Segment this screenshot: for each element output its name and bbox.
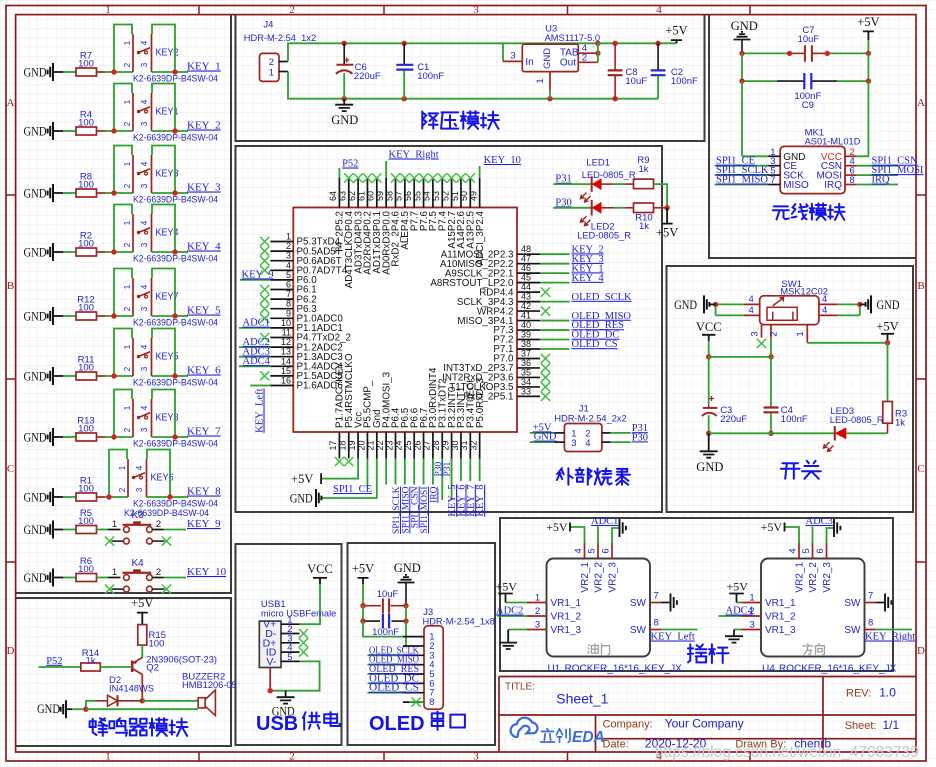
wire	[239, 346, 270, 348]
svg-text:ROCKER_16*16_KEY_JX: ROCKER_16*16_KEY_JX	[565, 664, 683, 675]
wire	[846, 432, 887, 434]
junction	[360, 618, 365, 623]
wire	[114, 375, 133, 377]
svg-text:1: 1	[112, 567, 117, 578]
MK1 pin 8 (IRQ)	[845, 184, 857, 186]
wire	[109, 496, 128, 498]
no-connect	[260, 266, 269, 275]
svg-text:100nF: 100nF	[781, 414, 808, 425]
svg-text:4: 4	[140, 99, 149, 104]
key switch KEY6	[127, 459, 129, 497]
svg-text:HDR-M-2.54_1x2: HDR-M-2.54_1x2	[244, 33, 316, 43]
svg-text:ADC4: ADC4	[243, 356, 271, 367]
wire	[503, 60, 522, 62]
svg-text:EDA: EDA	[572, 729, 605, 746]
joystick U4 pin 5 (VR2_2)	[812, 543, 814, 559]
wire	[114, 390, 132, 438]
MCU pin 44 (RDP4.4)	[517, 291, 540, 293]
wire	[770, 357, 772, 404]
wire	[368, 692, 404, 694]
power +5V (OLED)	[358, 578, 369, 584]
svg-text:GND: GND	[24, 571, 47, 585]
svg-text:P30: P30	[555, 197, 571, 208]
ground (buck)	[335, 99, 353, 111]
power +5V (wireless)	[863, 31, 874, 40]
svg-text:11: 11	[282, 328, 291, 338]
pin 4 (TAB)	[578, 52, 598, 54]
svg-text:1.0: 1.0	[879, 686, 896, 700]
wire	[239, 327, 270, 329]
svg-text:IRQ: IRQ	[872, 175, 891, 186]
wire	[654, 207, 668, 209]
wire	[63, 436, 76, 438]
junction	[172, 190, 177, 195]
svg-text:K2-6639DP-B4SW-04: K2-6639DP-B4SW-04	[133, 74, 218, 84]
wire	[469, 459, 471, 482]
svg-text:GND: GND	[290, 492, 313, 506]
no-connect	[541, 288, 550, 297]
J3 pin 7	[403, 692, 424, 694]
svg-text:4: 4	[286, 260, 291, 270]
svg-text:AMS1117-5.0: AMS1117-5.0	[545, 33, 600, 43]
svg-text:VR2_2: VR2_2	[594, 562, 605, 593]
wire	[363, 621, 403, 637]
svg-text:Date:: Date:	[603, 739, 629, 751]
svg-text:100: 100	[78, 180, 94, 191]
wire	[288, 43, 344, 61]
svg-text:D: D	[917, 645, 925, 657]
wire	[114, 251, 133, 253]
MCU pin 21 (Gnd)	[376, 432, 378, 459]
svg-text:SPI1_CE: SPI1_CE	[333, 484, 372, 495]
svg-text:A: A	[917, 97, 925, 109]
power +5V (U4 top)	[784, 523, 786, 532]
wire	[737, 602, 742, 604]
no-connect	[541, 392, 550, 401]
joystick U1 pin 2 (VR1_2)	[527, 615, 547, 617]
svg-text:SW: SW	[630, 598, 647, 609]
wire	[100, 666, 132, 668]
wire	[385, 459, 387, 485]
svg-text:2: 2	[156, 519, 161, 530]
no-connect	[419, 173, 428, 182]
svg-text:K4: K4	[132, 558, 145, 569]
wire	[152, 529, 164, 531]
wire	[405, 621, 407, 646]
junction	[706, 354, 711, 359]
wire	[114, 269, 132, 317]
svg-text:1: 1	[749, 593, 754, 604]
wire	[72, 708, 86, 710]
wire	[114, 315, 133, 317]
MCU pin 23 (P6.4)	[395, 432, 397, 459]
MCU pin 64 (T4_2P5.2)	[338, 178, 340, 208]
svg-text:KEY_6: KEY_6	[187, 365, 221, 377]
joystick U1 body	[547, 559, 651, 657]
wire	[175, 130, 188, 132]
svg-text:SW: SW	[630, 625, 647, 636]
MK1 pin 6 (MOSI)	[845, 174, 857, 176]
svg-text:100nF: 100nF	[671, 76, 698, 87]
svg-text:LED1: LED1	[586, 157, 610, 168]
MCU pin 41 (MISO_3P4.1)	[517, 320, 540, 322]
svg-text:GND: GND	[534, 432, 557, 443]
key switch KEY4	[132, 214, 134, 252]
power +5V (U1 top)	[569, 523, 571, 532]
wire	[97, 529, 109, 531]
wire	[114, 205, 132, 253]
MCU pin 33 (RxD_2P5.1)	[517, 395, 540, 397]
MCU pin 63 (AD4T3CLKOP0.4)	[348, 178, 350, 208]
MCU pin 48 (A11MOSI_2P2.3)	[517, 253, 540, 255]
MCU pin 53 (P7.4)	[441, 178, 443, 208]
module box: OLED header	[348, 543, 496, 745]
no-connect	[260, 371, 269, 380]
junction	[140, 698, 145, 703]
svg-text:1: 1	[112, 519, 117, 530]
wire	[395, 459, 397, 485]
junction	[172, 434, 177, 439]
wire	[540, 339, 570, 341]
junction	[360, 603, 365, 608]
J3 pin 1	[403, 636, 424, 638]
MCU pin 59 (AD0RxD3P0.0)	[385, 178, 387, 208]
no-connect	[260, 256, 269, 265]
no-connect	[335, 457, 344, 466]
svg-text:K2-6639DP-B4SW-04: K2-6639DP-B4SW-04	[133, 318, 218, 328]
MCU pin 12 (P1.2ADC2)	[270, 346, 293, 348]
no-connect	[541, 354, 550, 363]
svg-text:7: 7	[286, 289, 291, 299]
key switch KEY7	[132, 278, 134, 316]
wire	[152, 436, 176, 438]
MCU pin 6 (P6.1)	[270, 289, 293, 291]
svg-text:7: 7	[654, 591, 659, 602]
svg-text:15: 15	[281, 366, 291, 376]
ground (USB)	[277, 691, 295, 704]
svg-text:4: 4	[140, 220, 149, 225]
svg-text:P52: P52	[46, 656, 62, 667]
MCU pin 9 (P1.0ADC0)	[270, 317, 293, 319]
wire	[63, 496, 76, 498]
svg-text:GND: GND	[24, 125, 47, 139]
LED LED2	[591, 200, 593, 216]
junction	[739, 78, 744, 83]
junction	[172, 249, 177, 254]
svg-text:2: 2	[118, 487, 127, 492]
MCU pin 2 (P0.5AD5T)	[270, 250, 293, 252]
svg-text:GND: GND	[37, 702, 60, 716]
svg-text:1k: 1k	[638, 164, 648, 175]
MCU pin 32 (P5.0RxD_3)	[479, 432, 481, 459]
MCU pin 29 (P3.2INT0)	[451, 432, 453, 459]
wire	[741, 81, 743, 156]
junction	[664, 205, 669, 210]
svg-text:100: 100	[78, 424, 94, 435]
svg-text:K2-6639DP-B4SW-04: K2-6639DP-B4SW-04	[124, 508, 209, 518]
MCU pin 42 (WRP4.2)	[517, 310, 540, 312]
MK1 pin 3 (CE)	[768, 165, 780, 167]
svg-text:GND: GND	[394, 561, 421, 575]
svg-text:VR1_1: VR1_1	[551, 598, 582, 609]
wire	[141, 675, 143, 701]
svg-text:LED-0805_R: LED-0805_R	[582, 170, 636, 180]
wire	[152, 146, 175, 194]
wire	[152, 71, 176, 73]
wire	[838, 303, 860, 305]
wire	[338, 168, 340, 178]
junction	[706, 431, 711, 436]
svg-text:1: 1	[123, 40, 132, 45]
svg-text:2: 2	[286, 241, 291, 251]
wire	[413, 459, 415, 485]
svg-text:13: 13	[281, 347, 291, 357]
svg-text:2: 2	[123, 427, 132, 432]
MCU pin 58 (RxD2_2P4.6)	[395, 178, 397, 208]
MCU pin 40 (P7.3)	[517, 329, 540, 331]
svg-text:USB: USB	[256, 713, 298, 735]
module box: MCU	[236, 146, 663, 512]
wire	[97, 436, 106, 438]
svg-text:4: 4	[135, 465, 144, 470]
wire	[506, 602, 528, 604]
wire	[152, 375, 176, 377]
wire	[114, 84, 132, 132]
key switch KEY2	[132, 34, 134, 72]
wire	[239, 356, 270, 358]
svg-text:2: 2	[156, 567, 161, 578]
svg-text:4: 4	[140, 284, 149, 289]
wire	[152, 329, 175, 377]
no-connect	[299, 648, 308, 657]
junction	[857, 302, 862, 307]
ground (U4 top)	[834, 519, 840, 537]
svg-text:+5V: +5V	[665, 24, 687, 38]
svg-text:J4: J4	[263, 20, 273, 31]
svg-text:10uF: 10uF	[625, 76, 647, 87]
J3 pin 4	[403, 664, 424, 666]
svg-text:VR2_2: VR2_2	[808, 562, 819, 593]
wire	[321, 459, 377, 499]
wire	[540, 253, 570, 255]
svg-text:2: 2	[123, 306, 132, 311]
svg-text:5: 5	[287, 652, 292, 663]
svg-text:1: 1	[286, 232, 291, 242]
wire	[770, 338, 772, 357]
junction	[172, 373, 177, 378]
wire	[63, 192, 76, 194]
MK1 pin 5 (SCK)	[768, 174, 780, 176]
svg-text:100: 100	[78, 118, 94, 129]
wire	[63, 529, 76, 531]
svg-text:+5V: +5V	[727, 580, 749, 594]
MK1 pin 7 (MISO)	[768, 184, 780, 186]
svg-text:2: 2	[535, 606, 540, 617]
ground (switch right)	[866, 295, 871, 313]
svg-text:4: 4	[748, 305, 753, 316]
no-connect	[260, 295, 269, 304]
MCU pin 20 (P5.5CMP_)	[366, 432, 368, 459]
ground (MCU)	[316, 489, 321, 507]
wire	[114, 130, 133, 132]
svg-text:Out: Out	[560, 57, 576, 68]
svg-text:4: 4	[140, 344, 149, 349]
pin stubs J4	[279, 61, 288, 63]
svg-text:3: 3	[135, 487, 144, 492]
ground (U4 left)	[725, 630, 743, 643]
no-connect	[466, 173, 475, 182]
MCU pin 52 (A15P2.7)	[451, 178, 453, 208]
wire	[63, 71, 76, 73]
wire	[540, 282, 570, 284]
svg-text:+5V: +5V	[131, 596, 153, 610]
junction	[172, 313, 177, 318]
wire	[785, 527, 800, 543]
junction	[111, 313, 116, 318]
svg-text:ADC3: ADC3	[806, 516, 833, 527]
svg-text:10: 10	[281, 318, 291, 328]
svg-text:GND: GND	[24, 370, 47, 384]
wire	[97, 130, 106, 132]
wire	[97, 375, 106, 377]
MCU pin 24 (P6.5)	[404, 432, 406, 459]
svg-text:3: 3	[750, 331, 761, 336]
capacitor C9	[777, 80, 804, 82]
wire	[549, 91, 551, 99]
junction	[268, 688, 273, 693]
joystick U4 label	[803, 644, 813, 655]
svg-text:+5V: +5V	[876, 319, 898, 333]
junction	[106, 494, 111, 499]
MCU pin 57 (ALEP4.5)	[404, 178, 406, 208]
unused pin 4	[147, 538, 153, 544]
MCU pin 22 (P4.0MOSI_3)	[385, 432, 387, 459]
module box: buzzer	[16, 598, 231, 746]
svg-text:4: 4	[573, 548, 584, 553]
wire	[97, 251, 106, 253]
svg-text:C9: C9	[802, 100, 814, 111]
svg-text:VR2_3: VR2_3	[822, 562, 833, 593]
svg-text:3: 3	[286, 251, 291, 261]
svg-text:KEY_Right: KEY_Right	[865, 632, 915, 643]
no-connect	[344, 457, 353, 466]
no-connect	[260, 247, 269, 256]
wire	[807, 342, 887, 344]
svg-text:KEY_9: KEY_9	[242, 269, 274, 280]
svg-text:5: 5	[801, 548, 812, 553]
svg-text:3: 3	[473, 4, 479, 16]
svg-text:3: 3	[510, 51, 515, 62]
svg-text:4: 4	[656, 4, 662, 16]
wire	[362, 606, 364, 621]
svg-text:KEY_10: KEY_10	[484, 155, 521, 166]
svg-text:1: 1	[123, 284, 132, 289]
ground (U1 left)	[499, 630, 517, 650]
resistor R12	[76, 312, 97, 320]
svg-text:GND: GND	[24, 431, 47, 445]
svg-text:SPI1_MISO: SPI1_MISO	[716, 175, 768, 186]
wire	[152, 130, 176, 132]
svg-text:K2-6639DP-B4SW-04: K2-6639DP-B4SW-04	[133, 378, 218, 388]
MCU pin 50 (A13P2.5)	[469, 178, 471, 208]
wire	[741, 53, 743, 81]
svg-text:KEY_2: KEY_2	[187, 120, 221, 132]
wire	[661, 629, 698, 631]
svg-text:RxD_2P5.1: RxD_2P5.1	[463, 392, 513, 403]
wire	[239, 365, 270, 367]
svg-text:D: D	[7, 645, 15, 657]
svg-text:100: 100	[78, 484, 94, 495]
SW1 pin stubs right	[819, 303, 838, 305]
svg-text:3: 3	[571, 438, 576, 449]
MCU pin 30 (P3.3INT1)	[460, 432, 462, 459]
svg-text:100: 100	[78, 239, 94, 250]
wire	[97, 577, 109, 579]
svg-text:1: 1	[535, 593, 540, 604]
svg-text:9: 9	[286, 308, 291, 318]
no-connect	[363, 173, 372, 182]
svg-text:+5V: +5V	[656, 226, 678, 240]
svg-text:GND: GND	[542, 48, 553, 69]
svg-text:100: 100	[149, 639, 165, 650]
svg-text:VR1_2: VR1_2	[551, 612, 582, 623]
no-connect	[400, 173, 409, 182]
transistor Q2	[131, 661, 134, 673]
wire	[63, 130, 76, 132]
wire	[441, 459, 443, 501]
MCU pin 19 (Vcc)	[357, 432, 359, 459]
wire	[368, 682, 404, 684]
svg-text:K2-6639DP-B4SW-04: K2-6639DP-B4SW-04	[133, 254, 218, 264]
svg-text:ADC4: ADC4	[726, 606, 754, 617]
wire	[114, 25, 132, 73]
wire	[97, 496, 106, 498]
svg-text:GND: GND	[24, 187, 47, 201]
wire	[141, 645, 143, 658]
MK1 pin 2 (VCC)	[845, 155, 857, 157]
wire	[300, 584, 321, 624]
wire	[288, 72, 344, 99]
svg-text:8: 8	[868, 618, 873, 629]
svg-text:1: 1	[123, 344, 132, 349]
svg-text:6: 6	[286, 280, 291, 290]
svg-text:32: 32	[468, 440, 478, 450]
MCU pin 37 (P7.0)	[517, 357, 540, 359]
wire	[96, 700, 108, 702]
svg-text:1k: 1k	[85, 656, 95, 667]
svg-text:A: A	[7, 97, 15, 109]
svg-text:1: 1	[123, 405, 132, 410]
capacitor C2	[657, 43, 659, 70]
svg-text:KEY_8: KEY_8	[475, 485, 486, 517]
no-connect	[456, 173, 465, 182]
wire	[147, 496, 171, 498]
junction	[83, 707, 88, 712]
wire	[97, 192, 106, 194]
SW1 pin stubs left	[744, 303, 760, 305]
svg-text:3: 3	[140, 62, 149, 67]
no-connect	[438, 173, 447, 182]
wire	[540, 301, 570, 303]
junction	[111, 249, 116, 254]
wire	[114, 71, 133, 73]
svg-text:P52: P52	[342, 159, 358, 170]
svg-text:SW: SW	[844, 625, 861, 636]
svg-text:100: 100	[78, 516, 94, 527]
ground (U4 SW)	[876, 602, 886, 604]
key switch K4	[124, 575, 130, 581]
no-connect	[541, 373, 550, 382]
